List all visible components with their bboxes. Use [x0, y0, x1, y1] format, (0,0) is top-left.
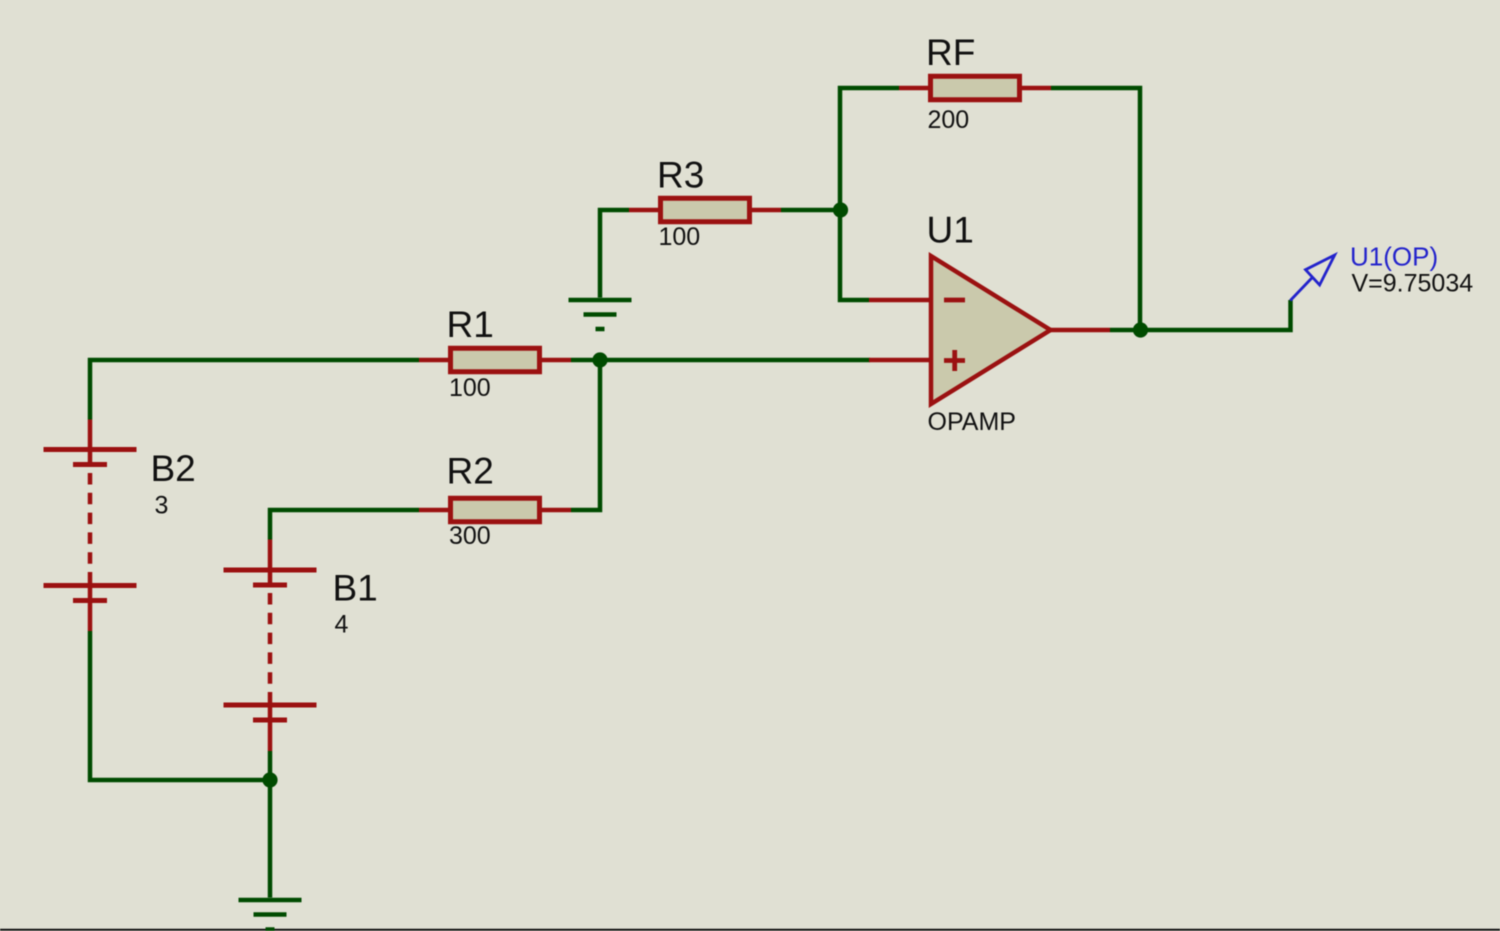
wire RF left / feedback to op-amp minus input [840, 88, 899, 300]
svg-text:R3: R3 [657, 155, 704, 196]
junction node R1/R2 [592, 352, 607, 367]
resistor R2 [419, 498, 571, 522]
resistor R1 [419, 348, 571, 372]
op-amp U1 [869, 256, 1110, 404]
ground for R3 [569, 300, 632, 329]
svg-text:200: 200 [928, 106, 970, 134]
junction node R3/RF feedback [833, 202, 848, 217]
svg-text:RF: RF [926, 32, 975, 73]
svg-text:B1: B1 [333, 568, 378, 609]
wire B2 bottom to ground node [90, 631, 270, 780]
wire R3 left to ground stem [600, 210, 629, 298]
wire R3 right to feedback node [781, 208, 840, 213]
junction node output [1133, 322, 1148, 337]
wire output node to probe stub [1110, 300, 1291, 330]
svg-text:R2: R2 [447, 451, 494, 492]
svg-text:U1(OP): U1(OP) [1350, 242, 1438, 272]
wire B1 bottom / ground node down to ground [268, 751, 273, 898]
battery B1 [224, 540, 317, 752]
svg-text:U1: U1 [927, 210, 974, 251]
svg-text:4: 4 [335, 611, 349, 639]
ground at bottom [239, 900, 302, 930]
svg-text:300: 300 [449, 522, 491, 550]
voltage probe U1(OP) [1290, 255, 1334, 301]
wire B1 top to R2 left [270, 510, 419, 540]
svg-text:OPAMP: OPAMP [928, 408, 1016, 436]
wire R2 right up to R1 junction [571, 360, 600, 510]
svg-text:R1: R1 [447, 304, 494, 345]
resistor RF [899, 76, 1051, 100]
screenshot bottom edge line [0, 929, 1500, 931]
resistor R3 [629, 198, 781, 222]
battery B2 [44, 420, 137, 632]
svg-text:B2: B2 [151, 448, 196, 489]
wire B2 top to R1 left [90, 360, 419, 420]
junction node batteries ground [262, 772, 277, 787]
svg-text:100: 100 [449, 374, 491, 402]
svg-text:100: 100 [659, 223, 701, 251]
svg-text:3: 3 [155, 492, 169, 520]
wire R1 right to op-amp plus input [571, 358, 870, 363]
wire RF right down to output node [1051, 88, 1140, 330]
svg-text:V=9.75034: V=9.75034 [1352, 270, 1474, 298]
